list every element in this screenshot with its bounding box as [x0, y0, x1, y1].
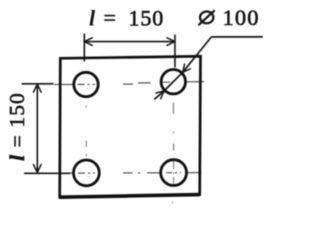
svg-text:150: 150 — [129, 6, 165, 31]
dimension line top (l = 150) — [84, 41, 175, 43]
extension line left (top dimension) — [83, 34, 85, 62]
arrowhead on hole upper-right — [183, 64, 191, 73]
svg-text:100: 100 — [223, 5, 260, 30]
hole bottom-right — [161, 160, 187, 186]
centerline vertical left column (between holes) — [85, 106, 87, 157]
diameter symbol — [198, 10, 214, 25]
arrowhead left-bottom — [33, 164, 41, 173]
centerline dot below bottom-right hole — [171, 202, 173, 205]
leader diagonal segment — [183, 37, 212, 72]
diameter line through hole — [164, 72, 183, 91]
plate outline (square) — [60, 56, 201, 197]
extension line bottom (left dimension) — [24, 172, 70, 174]
svg-text:l: l — [89, 5, 96, 30]
hole top-left — [74, 72, 98, 96]
dimension line left (l = 150) — [36, 84, 38, 172]
arrowhead top-right — [166, 38, 175, 46]
extension line right (top dimension) — [174, 35, 176, 68]
hole bottom-left — [74, 160, 100, 186]
centerline horizontal bottom row (through bottom holes) — [54, 172, 201, 175]
leader horizontal segment (diameter callout) — [211, 36, 262, 38]
centerline vertical right column (between holes) — [172, 103, 174, 187]
arrowhead left-top — [33, 84, 41, 93]
centerline horizontal top row (through top holes) — [54, 82, 204, 85]
hole top-right — [161, 70, 185, 94]
plate bottom edge (thicker) — [60, 195, 200, 198]
svg-text:l = 150: l = 150 — [5, 92, 29, 161]
leader tail lower-left — [154, 91, 164, 99]
arrowhead on hole lower-left — [155, 91, 164, 99]
svg-text:=: = — [104, 5, 116, 30]
arrowhead top-left — [84, 38, 93, 46]
extension line top (left dimension) — [22, 83, 54, 85]
